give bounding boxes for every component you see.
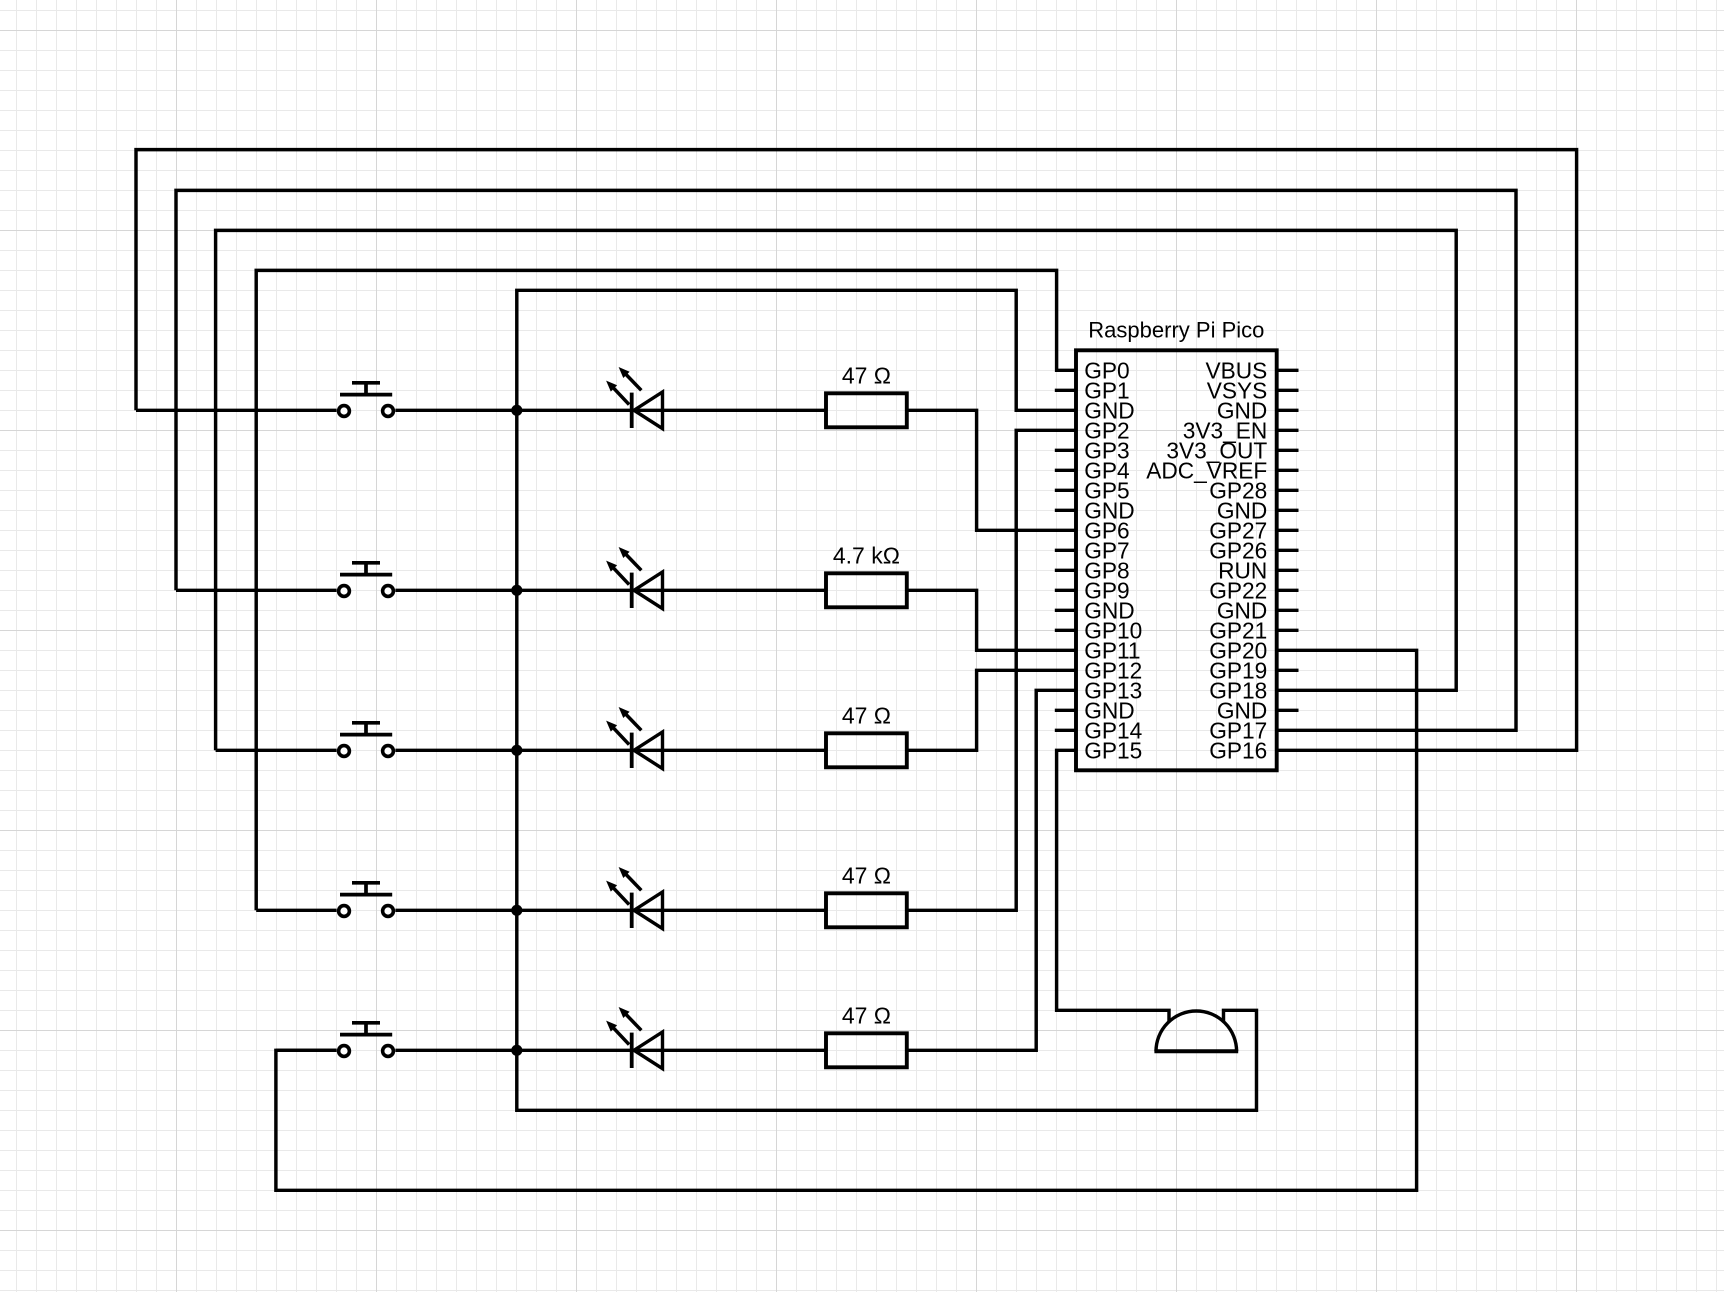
wire R4 to GP2 — [907, 430, 1076, 910]
pushbutton SW3 — [339, 723, 394, 757]
wire row 4: SW4 right contact through LED4 to R4 — [395, 909, 826, 912]
resistor R4 (47 Ω) — [826, 893, 907, 927]
pin stub left 10 (GP7) — [1055, 549, 1076, 552]
pin stub right 3 (GND) — [1277, 409, 1299, 412]
wire R1 to GP6 — [907, 410, 1076, 530]
svg-text:4.7 kΩ: 4.7 kΩ — [833, 543, 900, 569]
svg-text:47 Ω: 47 Ω — [842, 703, 891, 729]
pushbutton SW2 — [339, 563, 394, 597]
pin stub right 12 (GP22) — [1277, 589, 1299, 592]
pin stub right 7 (GP28) — [1277, 489, 1299, 492]
svg-text:Raspberry Pi Pico: Raspberry Pi Pico — [1088, 318, 1264, 343]
pin stub left 8 (GND) — [1055, 509, 1076, 512]
LED D4 — [606, 867, 662, 929]
pin stub left 12 (GP9) — [1055, 589, 1076, 592]
pin stub right 10 (GP26) — [1277, 549, 1299, 552]
pushbutton SW1 — [339, 383, 394, 417]
pin stub right 9 (GP27) — [1277, 529, 1299, 532]
wire R2 to GP11 — [907, 590, 1076, 650]
wire GP15 to buzzer left lead — [1057, 750, 1169, 1021]
pin stub right 11 (RUN) — [1277, 569, 1299, 572]
pin stub right 2 (VSYS) — [1277, 389, 1299, 392]
wire row 2: rail to SW2 left contact — [176, 589, 337, 592]
pin stub left 14 (GP10) — [1055, 629, 1076, 632]
svg-text:GP15: GP15 — [1084, 738, 1142, 764]
pin stub right 4 (3V3_EN) — [1277, 429, 1299, 432]
pin stub right 8 (GND) — [1277, 509, 1299, 512]
resistor R5 (47 Ω) — [826, 1033, 907, 1067]
pin stub left 5 (GP3) — [1055, 449, 1076, 452]
pin stub right 16 (GP19) — [1277, 669, 1299, 672]
resistor R3 (47 Ω) — [826, 733, 907, 767]
wire GND bus (GND pin to button/LED bus and buzzer right lead) — [517, 290, 1257, 1110]
buzzer BZ1 — [1154, 1011, 1238, 1051]
svg-text:47 Ω: 47 Ω — [842, 1003, 891, 1029]
junction node GND bus / row 3 — [511, 745, 522, 756]
LED D5 — [606, 1007, 662, 1069]
wire row 3: SW3 right contact through LED3 to R3 — [395, 749, 826, 752]
pin stub right 1 (VBUS) — [1277, 369, 1299, 372]
wire row 5: rail to SW5 left contact — [276, 1049, 337, 1052]
pin stub left 13 (GND) — [1055, 609, 1076, 612]
wire row 5: SW5 right contact through LED5 to R5 — [395, 1049, 826, 1052]
pin stub left 11 (GP8) — [1055, 569, 1076, 572]
wire net GP18 to SW3 — [216, 230, 1457, 750]
wire row 3: rail to SW3 left contact — [216, 749, 337, 752]
wire net GP0 to SW4 — [256, 270, 1076, 910]
wire R3 to GP12 — [907, 670, 1076, 750]
wire row 1: SW1 right contact through LED1 to R1 — [395, 409, 826, 412]
wire net GP20 to SW5 (bottom loop) — [276, 650, 1417, 1190]
LED D2 — [606, 547, 662, 609]
pin stub right 6 (ADC_VREF) — [1277, 469, 1299, 472]
pin stub left 7 (GP5) — [1055, 489, 1076, 492]
pin stub left 2 (GP1) — [1055, 389, 1076, 392]
svg-text:47 Ω: 47 Ω — [842, 863, 891, 889]
pin stub left 19 (GP14) — [1055, 729, 1076, 732]
LED D1 — [606, 367, 662, 429]
wire net GP17 to SW2 — [176, 190, 1516, 730]
pushbutton SW4 — [339, 883, 394, 917]
wire net GP16 to SW1 (outer loop) — [136, 150, 1577, 751]
junction node GND bus / row 4 — [511, 905, 522, 916]
junction node GND bus / row 2 — [511, 585, 522, 596]
LED D3 — [606, 707, 662, 769]
resistor R2 (4.7 kΩ) — [826, 573, 907, 607]
junction node GND bus / row 5 — [511, 1045, 522, 1056]
pin stub right 5 (3V3_OUT) — [1277, 449, 1299, 452]
resistor R1 (47 Ω) — [826, 393, 907, 427]
pushbutton SW5 — [339, 1023, 394, 1057]
pin stub right 13 (GND) — [1277, 609, 1299, 612]
wire row 1: rail to SW1 left contact — [136, 409, 337, 412]
svg-text:47 Ω: 47 Ω — [842, 363, 891, 389]
IC U1 Raspberry Pi Pico body — [1076, 350, 1277, 770]
pin stub right 18 (GND) — [1277, 709, 1299, 712]
wire R5 to GP13 — [907, 690, 1076, 1050]
pin stub left 18 (GND) — [1055, 709, 1076, 712]
pin stub right 14 (GP21) — [1277, 629, 1299, 632]
pin stub left 6 (GP4) — [1055, 469, 1076, 472]
svg-text:GP16: GP16 — [1209, 738, 1267, 764]
junction node GND bus / row 1 — [511, 405, 522, 416]
wire row 4: rail to SW4 left contact — [256, 909, 336, 912]
wire row 2: SW2 right contact through LED2 to R2 — [395, 589, 826, 592]
